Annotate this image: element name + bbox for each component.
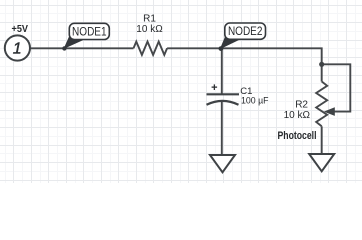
svg-text:R2: R2 (295, 99, 308, 110)
svg-text:+: + (211, 82, 217, 94)
svg-text:10 kΩ: 10 kΩ (136, 24, 163, 35)
svg-text:NODE1: NODE1 (72, 24, 107, 38)
junction node at NODE2 (219, 46, 224, 51)
wire: R1 to top-right corner (167, 48, 322, 81)
ground under C1 (210, 155, 235, 172)
junction node at R2 top (319, 62, 324, 67)
capacitor C1 top plate (207, 93, 240, 95)
pin 1 circle (+5V source) (5, 35, 30, 60)
wire: wiper loop (322, 64, 351, 111)
grid (decorative) (0, 0, 362, 183)
callout NODE2 pointer (220, 36, 241, 50)
ground under R2 (309, 154, 334, 171)
potentiometer R2 zigzag (316, 82, 327, 127)
svg-text:NODE2: NODE2 (228, 24, 263, 38)
wire: C1 to ground (221, 101, 223, 154)
callout NODE2 box (225, 23, 266, 39)
svg-text:100 µF: 100 µF (241, 95, 269, 106)
wiper arrowhead of R2 (324, 107, 335, 116)
resistor R1 (134, 42, 168, 55)
svg-text:R1: R1 (143, 14, 156, 25)
svg-text:+5V: +5V (12, 24, 29, 35)
callout NODE1 pointer tip dot (62, 46, 66, 50)
capacitor C1 curved plate (207, 101, 239, 105)
svg-text:10 kΩ: 10 kΩ (284, 110, 311, 121)
wire: +5V pin to R1 (30, 47, 134, 49)
callout NODE1 box (69, 23, 109, 39)
svg-text:Photocell: Photocell (278, 130, 317, 142)
wire: R2 to ground (321, 126, 323, 153)
callout NODE1 pointer (64, 36, 86, 50)
wire: C1 branch down from node 2 (221, 48, 223, 94)
svg-text:1: 1 (13, 41, 22, 58)
